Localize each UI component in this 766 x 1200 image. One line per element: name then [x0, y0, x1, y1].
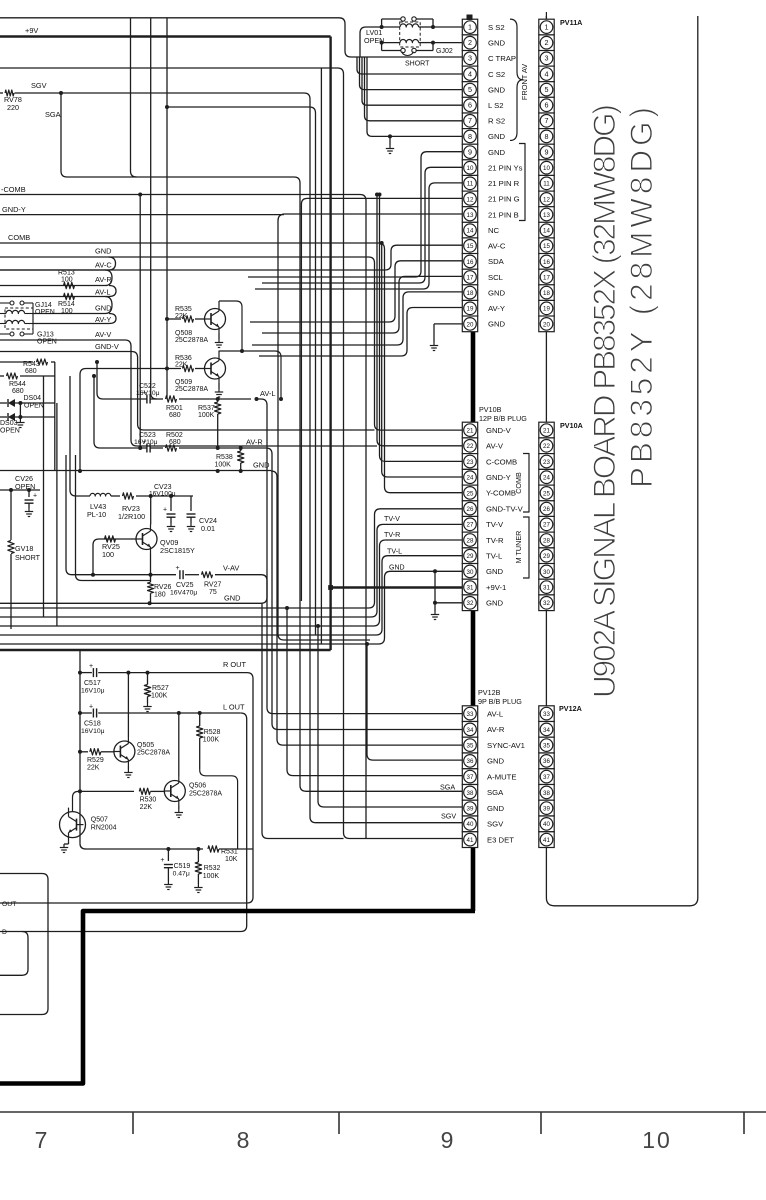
svg-text:7: 7 — [468, 116, 472, 125]
svg-text:31: 31 — [467, 585, 474, 592]
svg-text:FRONT AV: FRONT AV — [520, 64, 529, 100]
svg-text:GND: GND — [486, 599, 504, 608]
svg-text:GND: GND — [95, 247, 111, 256]
svg-text:25: 25 — [543, 490, 550, 497]
svg-text:100K: 100K — [198, 412, 215, 419]
svg-text:18: 18 — [543, 290, 550, 297]
svg-text:Q508: Q508 — [175, 330, 192, 337]
svg-text:33: 33 — [543, 711, 550, 718]
svg-text:+: + — [89, 704, 93, 711]
svg-text:DS03: DS03 — [0, 420, 18, 427]
svg-text:GND: GND — [486, 567, 504, 576]
svg-text:GND-Y: GND-Y — [2, 205, 26, 214]
svg-text:E3 DET: E3 DET — [487, 835, 514, 844]
svg-text:+: + — [163, 507, 167, 514]
svg-text:SYNC-AV1: SYNC-AV1 — [487, 741, 525, 750]
svg-text:RV27: RV27 — [204, 582, 221, 589]
svg-text:D: D — [2, 929, 7, 936]
svg-text:37: 37 — [467, 774, 474, 781]
svg-text:3: 3 — [468, 54, 472, 63]
svg-text:41: 41 — [467, 837, 474, 844]
svg-text:GND: GND — [487, 804, 505, 813]
svg-text:GND: GND — [488, 39, 506, 48]
svg-text:GJ14: GJ14 — [35, 302, 52, 309]
svg-text:14: 14 — [543, 228, 550, 235]
svg-text:AV-R: AV-R — [487, 725, 505, 734]
svg-text:AV-C: AV-C — [95, 261, 112, 270]
svg-text:GV18: GV18 — [15, 544, 33, 553]
svg-text:AV-C: AV-C — [488, 242, 506, 251]
svg-text:34: 34 — [543, 727, 550, 734]
svg-text:19: 19 — [543, 306, 550, 313]
svg-text:20: 20 — [467, 321, 474, 328]
svg-text:OPEN: OPEN — [35, 309, 55, 316]
svg-text:10K: 10K — [225, 856, 238, 863]
svg-text:100: 100 — [102, 550, 114, 559]
svg-text:2: 2 — [545, 38, 549, 47]
svg-text:8: 8 — [545, 132, 549, 141]
svg-text:1/2R100: 1/2R100 — [118, 512, 145, 521]
svg-text:680: 680 — [169, 439, 181, 446]
svg-text:15: 15 — [467, 243, 474, 250]
svg-text:TV-R: TV-R — [384, 530, 400, 539]
svg-text:R529: R529 — [87, 757, 104, 764]
svg-text:22: 22 — [543, 443, 550, 450]
svg-text:SDA: SDA — [488, 257, 505, 266]
svg-text:OPEN: OPEN — [0, 428, 20, 435]
svg-text:21 PIN R: 21 PIN R — [488, 179, 520, 188]
svg-text:GND: GND — [488, 132, 506, 141]
svg-text:28: 28 — [467, 537, 474, 544]
svg-text:R OUT: R OUT — [223, 660, 246, 669]
svg-text:26: 26 — [543, 506, 550, 513]
svg-text:26: 26 — [467, 506, 474, 513]
svg-text:19: 19 — [467, 306, 474, 313]
svg-text:OPEN: OPEN — [37, 339, 57, 346]
svg-text:U902A SIGNAL BOARD PB8352X (32: U902A SIGNAL BOARD PB8352X (32MW8DG) — [586, 104, 622, 698]
svg-text:GND: GND — [253, 461, 269, 470]
svg-text:TV-R: TV-R — [486, 536, 504, 545]
svg-text:PV10A: PV10A — [560, 421, 583, 430]
svg-text:TV-V: TV-V — [486, 520, 504, 529]
svg-text:GND: GND — [488, 320, 506, 329]
svg-text:25C2878A: 25C2878A — [175, 386, 208, 393]
svg-text:11: 11 — [467, 181, 474, 188]
svg-text:GND: GND — [95, 304, 111, 313]
svg-text:32: 32 — [467, 600, 474, 607]
svg-text:100K: 100K — [203, 737, 220, 744]
svg-text:1: 1 — [545, 23, 549, 32]
svg-text:35: 35 — [543, 743, 550, 750]
svg-text:33: 33 — [467, 711, 474, 718]
svg-text:13: 13 — [467, 212, 474, 219]
svg-text:SGA: SGA — [440, 783, 455, 792]
svg-text:GND: GND — [389, 565, 405, 572]
svg-text:40: 40 — [467, 821, 474, 828]
svg-text:24: 24 — [467, 475, 474, 482]
svg-text:25C2878A: 25C2878A — [175, 337, 208, 344]
svg-text:R532: R532 — [204, 865, 221, 872]
svg-text:GND: GND — [488, 288, 506, 297]
svg-text:AV-L: AV-L — [487, 709, 504, 718]
svg-text:29: 29 — [467, 553, 474, 560]
svg-text:7: 7 — [35, 1127, 50, 1153]
svg-text:100: 100 — [61, 277, 73, 284]
svg-text:12P B/B PLUG: 12P B/B PLUG — [479, 414, 527, 423]
svg-text:SCL: SCL — [488, 273, 504, 282]
svg-text:75: 75 — [209, 589, 217, 596]
svg-text:100K: 100K — [215, 462, 232, 469]
svg-text:14: 14 — [467, 228, 474, 235]
svg-text:16: 16 — [543, 259, 550, 266]
svg-text:25: 25 — [467, 490, 474, 497]
svg-text:R514: R514 — [58, 301, 75, 308]
svg-text:AV-V: AV-V — [486, 442, 504, 451]
svg-text:GND: GND — [488, 148, 506, 157]
svg-text:0.01: 0.01 — [201, 524, 215, 533]
svg-text:3: 3 — [545, 54, 549, 63]
svg-text:32: 32 — [543, 600, 550, 607]
svg-text:GJ02: GJ02 — [436, 48, 453, 55]
svg-text:16V10μ: 16V10μ — [136, 390, 160, 397]
svg-text:29: 29 — [543, 553, 550, 560]
svg-text:16V10μ: 16V10μ — [81, 728, 105, 735]
svg-text:AV-R: AV-R — [246, 438, 263, 447]
svg-text:+: + — [175, 565, 179, 572]
svg-text:9: 9 — [545, 148, 549, 157]
svg-text:9: 9 — [441, 1127, 456, 1153]
svg-text:10: 10 — [467, 165, 474, 172]
svg-text:SHORT: SHORT — [405, 61, 430, 68]
svg-text:24: 24 — [543, 475, 550, 482]
svg-text:SHORT: SHORT — [15, 553, 41, 562]
svg-text:GND-Y: GND-Y — [486, 473, 511, 482]
svg-text:OUT: OUT — [2, 901, 16, 908]
svg-text:GND: GND — [224, 594, 240, 603]
svg-text:V-AV: V-AV — [223, 564, 239, 573]
svg-text:8: 8 — [468, 132, 472, 141]
svg-text:27: 27 — [543, 522, 550, 529]
svg-text:TV-L: TV-L — [387, 547, 402, 556]
svg-text:1: 1 — [468, 23, 472, 32]
svg-text:8: 8 — [237, 1127, 252, 1153]
svg-text:RN2004: RN2004 — [91, 824, 117, 831]
svg-text:22: 22 — [467, 443, 474, 450]
svg-text:36: 36 — [467, 758, 474, 765]
svg-text:PL-10: PL-10 — [87, 510, 106, 519]
svg-text:A-MUTE: A-MUTE — [487, 772, 516, 781]
svg-text:30: 30 — [543, 569, 550, 576]
svg-text:+: + — [160, 857, 164, 864]
svg-text:9P B/B PLUG: 9P B/B PLUG — [478, 697, 522, 706]
svg-text:38: 38 — [467, 790, 474, 797]
svg-text:12: 12 — [467, 196, 474, 203]
svg-text:23: 23 — [467, 459, 474, 466]
svg-text:+: + — [142, 390, 146, 397]
svg-text:AV-V: AV-V — [95, 330, 111, 339]
svg-text:17: 17 — [543, 274, 550, 281]
svg-text:17: 17 — [467, 274, 474, 281]
svg-text:R531: R531 — [221, 849, 238, 856]
svg-text:30: 30 — [467, 569, 474, 576]
svg-text:40: 40 — [543, 821, 550, 828]
svg-text:5: 5 — [545, 85, 549, 94]
svg-text:C519: C519 — [174, 863, 191, 870]
svg-text:34: 34 — [467, 727, 474, 734]
svg-text:R537: R537 — [198, 405, 215, 412]
svg-text:680: 680 — [169, 412, 181, 419]
svg-text:R528: R528 — [204, 729, 221, 736]
svg-text:38: 38 — [543, 790, 550, 797]
svg-text:6: 6 — [468, 101, 472, 110]
svg-text:16: 16 — [467, 259, 474, 266]
svg-text:16V470μ: 16V470μ — [170, 590, 197, 597]
svg-text:SGV: SGV — [487, 820, 504, 829]
svg-text:Q506: Q506 — [189, 783, 206, 790]
svg-text:35: 35 — [467, 743, 474, 750]
svg-text:R S2: R S2 — [488, 117, 505, 126]
svg-text:DS04: DS04 — [24, 395, 42, 402]
svg-text:L S2: L S2 — [488, 101, 504, 110]
svg-text:R544: R544 — [9, 381, 26, 388]
svg-text:10: 10 — [543, 165, 550, 172]
svg-text:25C2878A: 25C2878A — [189, 790, 222, 797]
svg-text:37: 37 — [543, 774, 550, 781]
svg-text:21 PIN Ys: 21 PIN Ys — [488, 164, 523, 173]
svg-text:0.47μ: 0.47μ — [173, 871, 190, 878]
svg-text:+9V-1: +9V-1 — [486, 583, 506, 592]
svg-text:GND-TV-V: GND-TV-V — [486, 504, 524, 513]
svg-text:27: 27 — [467, 522, 474, 529]
svg-text:100K: 100K — [203, 873, 220, 880]
svg-text:C-COMB: C-COMB — [486, 457, 517, 466]
svg-text:TV-V: TV-V — [384, 514, 400, 523]
svg-text:GJ13: GJ13 — [37, 332, 54, 339]
svg-text:18: 18 — [467, 290, 474, 297]
svg-text:6: 6 — [545, 101, 549, 110]
svg-text:CV25: CV25 — [176, 582, 194, 589]
svg-text:31: 31 — [543, 585, 550, 592]
svg-text:21 PIN B: 21 PIN B — [488, 210, 519, 219]
svg-text:GND-V: GND-V — [95, 342, 119, 351]
svg-text:GND: GND — [488, 85, 506, 94]
svg-text:S S2: S S2 — [488, 23, 505, 32]
svg-text:680: 680 — [12, 388, 24, 395]
svg-text:680: 680 — [25, 368, 37, 375]
svg-text:L OUT: L OUT — [223, 703, 245, 712]
svg-text:180: 180 — [154, 592, 166, 599]
svg-text:25C2878A: 25C2878A — [137, 750, 170, 757]
svg-text:+: + — [89, 663, 93, 670]
svg-text:21: 21 — [543, 428, 550, 435]
svg-text:GND-V: GND-V — [486, 426, 512, 435]
svg-text:22K: 22K — [140, 804, 153, 811]
svg-text:-COMB: -COMB — [1, 185, 26, 194]
svg-text:21 PIN G: 21 PIN G — [488, 195, 520, 204]
svg-text:15: 15 — [543, 243, 550, 250]
svg-text:100K: 100K — [151, 693, 168, 700]
svg-text:Y-COMB: Y-COMB — [486, 489, 516, 498]
svg-text:5: 5 — [468, 85, 472, 94]
svg-text:39: 39 — [467, 806, 474, 813]
svg-text:16V100μ: 16V100μ — [149, 491, 176, 498]
svg-text:10: 10 — [642, 1127, 672, 1153]
svg-text:PV11A: PV11A — [560, 18, 582, 27]
svg-text:R527: R527 — [152, 685, 169, 692]
svg-text:COMB: COMB — [8, 233, 30, 242]
svg-text:Q509: Q509 — [175, 379, 192, 386]
svg-text:21: 21 — [467, 428, 474, 435]
svg-text:13: 13 — [543, 212, 550, 219]
svg-text:COMB: COMB — [514, 472, 523, 494]
svg-text:NC: NC — [488, 226, 500, 235]
svg-text:C517: C517 — [84, 680, 101, 687]
svg-text:R502: R502 — [166, 432, 183, 439]
svg-text:20: 20 — [543, 321, 550, 328]
svg-text:PV12B: PV12B — [478, 688, 501, 697]
svg-text:SGV: SGV — [441, 812, 456, 821]
svg-text:11: 11 — [543, 181, 550, 188]
svg-text:R530: R530 — [140, 797, 157, 804]
svg-text:AV-L: AV-L — [260, 389, 275, 398]
svg-text:TV-L: TV-L — [486, 552, 503, 561]
svg-text:R538: R538 — [216, 454, 233, 461]
svg-text:PB8352Y (28MW8DG): PB8352Y (28MW8DG) — [623, 107, 659, 488]
svg-text:12: 12 — [543, 196, 550, 203]
svg-text:AV-R: AV-R — [95, 275, 112, 284]
svg-text:4: 4 — [545, 69, 549, 78]
svg-text:16V10μ: 16V10μ — [81, 688, 105, 695]
svg-text:RV26: RV26 — [154, 584, 171, 591]
svg-text:Q505: Q505 — [137, 742, 154, 749]
svg-text:SGV: SGV — [31, 81, 47, 90]
svg-text:28: 28 — [543, 537, 550, 544]
svg-text:C TRAP: C TRAP — [488, 54, 516, 63]
svg-text:220: 220 — [7, 103, 19, 112]
svg-text:Q507: Q507 — [91, 817, 108, 824]
svg-text:+9V: +9V — [25, 26, 38, 35]
svg-text:7: 7 — [545, 116, 549, 125]
svg-text:C518: C518 — [84, 721, 101, 728]
svg-text:+: + — [33, 493, 37, 500]
svg-text:39: 39 — [543, 806, 550, 813]
svg-text:R501: R501 — [166, 405, 183, 412]
svg-text:23: 23 — [543, 459, 550, 466]
svg-text:AV-Y: AV-Y — [488, 304, 505, 313]
svg-text:+: + — [142, 439, 146, 446]
svg-text:2: 2 — [468, 38, 472, 47]
svg-text:PV12A: PV12A — [559, 704, 582, 713]
svg-text:GND: GND — [487, 757, 505, 766]
svg-text:4: 4 — [468, 69, 472, 78]
svg-text:AV-L: AV-L — [95, 288, 110, 297]
svg-text:2SC1815Y: 2SC1815Y — [160, 546, 195, 555]
svg-text:SGA: SGA — [487, 788, 504, 797]
svg-text:R535: R535 — [175, 306, 192, 313]
svg-text:36: 36 — [543, 758, 550, 765]
svg-text:AV-Y: AV-Y — [95, 315, 111, 324]
svg-text:SGA: SGA — [45, 110, 61, 119]
svg-text:C S2: C S2 — [488, 70, 505, 79]
svg-text:22K: 22K — [87, 765, 100, 772]
svg-text:41: 41 — [543, 837, 550, 844]
svg-text:PV10B: PV10B — [479, 405, 502, 414]
svg-text:M TUNER: M TUNER — [514, 531, 523, 564]
svg-text:9: 9 — [468, 148, 472, 157]
